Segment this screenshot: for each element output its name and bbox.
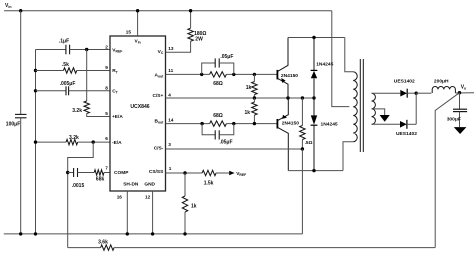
resistor R3 68k — [94, 170, 104, 175]
wire network ground vertical — [35, 50, 37, 234]
svg-text:16: 16 — [117, 195, 123, 200]
svg-text:.005μF: .005μF — [60, 81, 76, 87]
resistor R10 .5ohm — [301, 98, 303, 126]
wire pin1 line — [166, 172, 203, 174]
wire Ct line left — [36, 90, 67, 92]
resistor R4 3.6k — [101, 245, 114, 250]
junction railA-1k — [183, 232, 186, 235]
wire Bout line b — [226, 123, 277, 125]
svg-text:68Ω: 68Ω — [213, 81, 223, 87]
svg-text:Vo: Vo — [461, 84, 466, 90]
svg-text:GND: GND — [144, 181, 155, 187]
junction -E/A-ground-vert — [34, 140, 37, 143]
svg-text:3.2k: 3.2k — [69, 135, 79, 141]
svg-text:8: 8 — [105, 86, 108, 91]
resistor R6 68ohm — [210, 72, 227, 77]
wire Bout line a — [166, 123, 210, 125]
svg-text:.05μF: .05μF — [219, 140, 232, 146]
svg-text:5: 5 — [105, 111, 108, 116]
diode D4 UES1402 — [400, 121, 407, 128]
wire left Vin vertical lower — [20, 118, 22, 234]
svg-text:9: 9 — [105, 65, 108, 70]
svg-text:68k: 68k — [96, 177, 105, 183]
wire left Vin vertical upper — [20, 11, 22, 115]
svg-text:.0015: .0015 — [72, 183, 85, 189]
wire to Vref arrow — [216, 172, 229, 174]
wire Rt line right — [77, 70, 110, 72]
junction collrail-D1 — [312, 36, 315, 39]
wire +E/A lead — [87, 114, 110, 117]
svg-text:1.5k: 1.5k — [204, 181, 214, 187]
wire comp branch mid — [78, 172, 95, 174]
junction Bout-1k — [253, 122, 256, 125]
svg-text:CS/SS: CS/SS — [149, 169, 164, 175]
svg-text:200μH: 200μH — [434, 79, 449, 85]
svg-text:SH-DN: SH-DN — [123, 181, 139, 187]
ground secondary arrow — [380, 115, 390, 122]
resistor R11 1.5k — [202, 170, 216, 175]
wire Vref line right — [70, 49, 110, 51]
resistor R1 3.2k — [84, 101, 89, 113]
junction rectifier out — [415, 92, 418, 95]
transformer T1 secondary — [372, 93, 376, 124]
diode D3 UES1402 — [400, 90, 407, 97]
svg-text:UES1402: UES1402 — [396, 131, 417, 137]
svg-text:.05μF: .05μF — [220, 54, 233, 60]
svg-text:100μF: 100μF — [6, 121, 20, 127]
wire Vref-to-3.2k vertical — [86, 50, 88, 102]
junction railA-Vin — [19, 232, 22, 235]
wire comp branch right — [104, 172, 110, 174]
wire ground rail A — [4, 233, 303, 235]
svg-text:3.2k: 3.2k — [72, 108, 82, 114]
wire Vref line left — [36, 49, 66, 51]
wire rectifier join vertical — [415, 93, 417, 124]
capacitor C2 .0015 — [73, 168, 75, 177]
junction comp-branch — [66, 171, 69, 174]
svg-text:15: 15 — [126, 30, 132, 35]
svg-text:Aout: Aout — [155, 73, 165, 79]
svg-text:Vin: Vin — [5, 3, 11, 9]
junction Bout rc-right — [232, 122, 235, 125]
resistor R-T .5k — [63, 68, 76, 73]
wire Aout line b — [226, 73, 277, 75]
wire secondary top lead — [372, 92, 401, 94]
resistor R7 1k upper — [253, 74, 255, 81]
junction Rt-ground — [34, 69, 37, 72]
svg-text:11: 11 — [168, 68, 173, 73]
svg-text:COMP: COMP — [114, 170, 129, 176]
inductor L1 200uH — [432, 87, 455, 94]
svg-text:.1μF: .1μF — [59, 39, 69, 45]
node Vref arrow — [229, 171, 234, 176]
wire Ct line right — [69, 90, 110, 92]
capacitor C-in 100uF — [15, 113, 27, 115]
svg-text:UES1402: UES1402 — [394, 79, 415, 85]
capacitor C4 .05uF bracket — [202, 124, 215, 135]
wire center tap feed — [332, 11, 350, 107]
svg-text:Bout: Bout — [155, 118, 165, 124]
svg-text:UCX846: UCX846 — [130, 104, 149, 110]
wire Vo feedback diagonal — [435, 93, 459, 248]
svg-text:3: 3 — [168, 142, 171, 147]
svg-text:2N4150: 2N4150 — [282, 121, 299, 127]
transformer T1 core — [359, 59, 361, 152]
svg-text:1k: 1k — [246, 85, 252, 91]
svg-text:1k: 1k — [191, 204, 197, 210]
diode D2 1N4245 — [313, 98, 315, 115]
junction CS+-1k — [253, 96, 256, 99]
transistor Q2 2N4150 — [276, 119, 278, 129]
wire to inductor — [416, 92, 431, 94]
svg-text:1: 1 — [169, 166, 172, 171]
svg-text:300μF: 300μF — [447, 117, 461, 123]
junction railA-network — [34, 232, 37, 235]
ground output arrow — [454, 127, 467, 134]
svg-text:VREF: VREF — [236, 171, 246, 177]
wire -E/A line right — [78, 141, 110, 143]
svg-text:CT: CT — [112, 89, 118, 95]
wire feedback jog — [68, 142, 94, 248]
svg-text:2: 2 — [105, 44, 108, 49]
wire Q2 collector rail — [288, 170, 343, 172]
junction Aout rc-right — [232, 73, 235, 76]
pin 15 stub — [137, 11, 139, 36]
svg-text:1k: 1k — [244, 110, 250, 116]
svg-text:12: 12 — [145, 195, 151, 200]
junction CS+-sense — [301, 96, 304, 99]
wire secondary centertap — [372, 109, 385, 115]
svg-text:2N4150: 2N4150 — [281, 73, 298, 79]
resistor R9 68ohm — [210, 121, 227, 126]
wire 180ohm top — [190, 11, 192, 29]
diode D1 1N4245 — [313, 38, 315, 71]
svg-text:.5Ω: .5Ω — [305, 140, 313, 146]
wire primary top lead — [345, 38, 354, 72]
svg-text:Vin: Vin — [134, 39, 140, 45]
resistor R12 1k — [184, 173, 186, 196]
wire C/S+ line — [166, 97, 315, 99]
wire top Vin rail — [4, 10, 332, 12]
transformer T1 primary — [353, 72, 357, 142]
svg-text:68Ω: 68Ω — [213, 113, 223, 119]
wire Vc pin line — [166, 41, 191, 52]
junction CS+-emitters — [286, 96, 289, 99]
pin 16 stub — [126, 191, 128, 234]
svg-text:C/S-: C/S- — [154, 145, 164, 151]
wire Q1 collector rail — [288, 37, 345, 39]
svg-text:3.6k: 3.6k — [98, 239, 108, 245]
wire inductor to Vo — [455, 92, 474, 94]
junction Ct-ground — [34, 89, 37, 92]
wire Aout line a — [166, 73, 210, 75]
svg-text:VREF: VREF — [112, 47, 122, 53]
junction railA-pin12 — [151, 232, 154, 235]
junction CS+-diodes — [312, 96, 315, 99]
wire feedback rail B left — [68, 247, 101, 249]
svg-text:VC: VC — [158, 49, 164, 55]
resistor R5 180ohm — [188, 28, 193, 41]
svg-text:.5k: .5k — [62, 62, 69, 68]
capacitor C1 .1uF — [65, 45, 67, 55]
transistor Q1 2N4150 — [276, 70, 278, 80]
svg-text:4: 4 — [168, 92, 171, 97]
resistor R2 3.2k — [66, 139, 78, 144]
junction Aout-1k — [253, 73, 256, 76]
wire sense to railA — [301, 149, 303, 234]
resistor R8 1k lower — [253, 98, 255, 102]
wire feedback rail B right — [114, 247, 435, 249]
junction Bout rc-left — [200, 122, 203, 125]
svg-text:14: 14 — [168, 117, 174, 122]
wire -E/A line left — [36, 141, 67, 143]
svg-text:1N4245: 1N4245 — [321, 121, 338, 127]
junction Vo — [458, 91, 461, 94]
junction collrail2-D2 — [312, 169, 315, 172]
svg-text:-E/A: -E/A — [112, 140, 122, 146]
capacitor C3 .05uF bracket — [202, 63, 216, 74]
wire comp branch left — [68, 172, 74, 174]
svg-text:RT: RT — [112, 68, 118, 74]
svg-text:7: 7 — [105, 166, 108, 171]
svg-text:+E/A: +E/A — [112, 114, 123, 120]
op-amp U1 UCX846 box — [110, 36, 166, 191]
junction CS--sense — [301, 147, 304, 150]
svg-text:13: 13 — [168, 46, 174, 51]
junction Vref-divider — [85, 48, 88, 51]
junction rail-pin15 — [136, 9, 139, 12]
junction -E/A-feedback — [92, 140, 95, 143]
junction Aout rc-left — [200, 73, 203, 76]
pin 12 stub — [152, 191, 154, 234]
junction Vin-left — [19, 9, 22, 12]
svg-text:1N4245: 1N4245 — [316, 62, 333, 68]
junction rail-180ohm — [189, 9, 192, 12]
junction pin1 — [183, 171, 186, 174]
svg-text:6: 6 — [105, 136, 108, 141]
svg-text:2W: 2W — [195, 36, 203, 42]
capacitor C-T .005uF — [65, 86, 67, 95]
wire Rt line left — [36, 70, 64, 72]
wire primary bottom lead — [343, 142, 353, 171]
svg-text:C/S+: C/S+ — [152, 93, 163, 99]
wire secondary bottom lead — [372, 123, 401, 125]
wire C/S- line — [166, 148, 303, 150]
capacitor C5 300uF — [459, 93, 461, 110]
junction railA-pin16 — [126, 232, 129, 235]
